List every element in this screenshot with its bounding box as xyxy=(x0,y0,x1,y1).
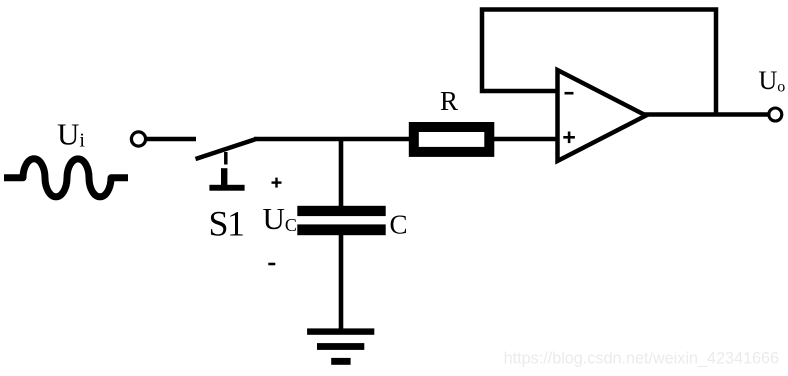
input terminal xyxy=(131,132,145,146)
op-amp + input marker xyxy=(563,132,575,144)
capacitor C top plate xyxy=(297,206,385,216)
source Ui sine symbol xyxy=(4,159,128,197)
wire from op-amp output to output terminal xyxy=(644,112,769,117)
op-amp - input marker xyxy=(565,92,574,95)
switch S1 fixed contact post xyxy=(209,168,244,191)
wire from capacitor to ground xyxy=(339,235,344,329)
label + (capacitor polarity) xyxy=(272,178,282,188)
capacitor C bottom plate xyxy=(297,224,385,235)
feedback wire from output to - input xyxy=(482,10,716,115)
switch S1 contact tick xyxy=(224,152,228,165)
resistor R xyxy=(414,127,490,152)
wire from input terminal to switch xyxy=(146,137,196,142)
svg-text:S1: S1 xyxy=(209,204,244,244)
svg-text:C: C xyxy=(390,210,408,240)
svg-text:R: R xyxy=(440,86,458,116)
svg-text:https://blog.csdn.net/weixin_4: https://blog.csdn.net/weixin_42341666 xyxy=(504,350,779,368)
op-amp U1 xyxy=(558,70,647,161)
switch S1 lever xyxy=(196,139,257,159)
label - (capacitor polarity) xyxy=(268,263,275,266)
wire from switch to node and resistor xyxy=(254,137,410,142)
ground xyxy=(307,328,374,364)
wire from resistor to op-amp + input xyxy=(494,137,557,142)
output terminal xyxy=(769,108,782,121)
svg-text:Uo: Uo xyxy=(759,66,786,96)
svg-text:Ui: Ui xyxy=(57,117,85,152)
svg-text:UC: UC xyxy=(263,201,297,236)
node junction wire down to capacitor xyxy=(339,137,344,207)
